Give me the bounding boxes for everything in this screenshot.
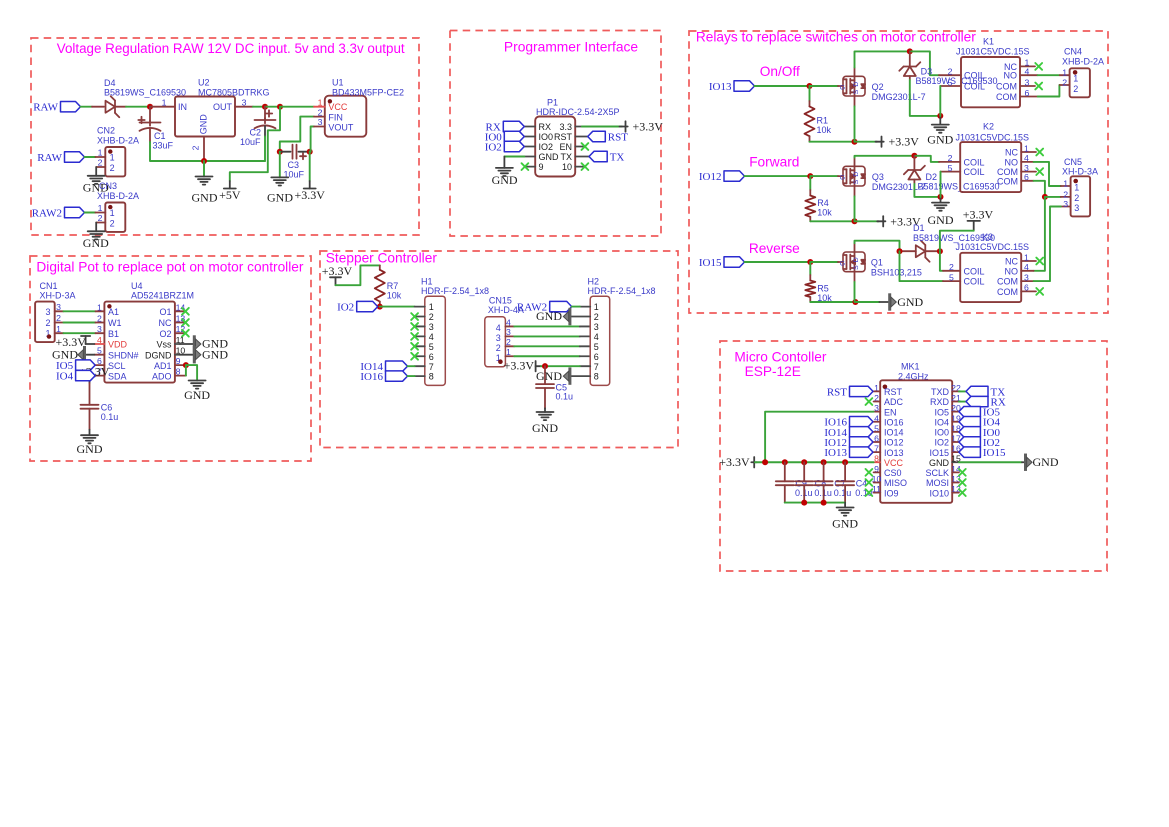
power +5V — [219, 181, 241, 202]
svg-text:4: 4 — [1024, 262, 1029, 272]
power GND — [194, 335, 201, 352]
resistor R7 top pin — [379, 265, 381, 269]
svg-text:9: 9 — [539, 162, 544, 172]
svg-text:SCL: SCL — [108, 361, 126, 371]
svg-text:RX: RX — [539, 122, 552, 132]
svg-text:NC: NC — [1005, 148, 1018, 158]
wire — [265, 106, 280, 108]
wire — [280, 151, 291, 153]
P1 right pin 10 — [575, 166, 585, 168]
svg-text:6: 6 — [1024, 88, 1029, 98]
svg-text:IO15: IO15 — [699, 257, 722, 269]
svg-text:B5819WS_C169530: B5819WS_C169530 — [104, 87, 186, 97]
wire — [854, 106, 856, 141]
wire — [810, 261, 838, 263]
svg-text:P1: P1 — [547, 97, 558, 107]
svg-text:IO15: IO15 — [929, 448, 949, 458]
diode D1 anode pin — [900, 250, 916, 252]
wire — [514, 335, 580, 337]
svg-text:10: 10 — [562, 162, 572, 172]
wire — [855, 141, 878, 143]
no-connect — [1035, 83, 1042, 90]
svg-text:On/Off: On/Off — [760, 64, 800, 79]
diode D2 — [904, 166, 925, 180]
wire — [253, 106, 265, 108]
CN5 pin 2 — [1061, 196, 1071, 198]
svg-text:GND: GND — [536, 309, 562, 323]
svg-text:NO: NO — [1004, 71, 1018, 81]
svg-text:5: 5 — [97, 346, 102, 356]
svg-text:3: 3 — [429, 322, 434, 332]
svg-text:RAW: RAW — [37, 152, 62, 164]
svg-text:IN: IN — [178, 102, 187, 112]
svg-text:+3.3V: +3.3V — [294, 188, 325, 202]
P1 right pin EN — [575, 146, 585, 148]
capacitor C6 bottom pin — [89, 409, 91, 430]
wire — [879, 301, 888, 303]
ground — [271, 177, 288, 185]
digital pot U4 — [104, 302, 174, 383]
svg-text:1: 1 — [1073, 74, 1078, 84]
CN15 pin 3 — [505, 335, 514, 337]
capacitor C2 pin — [264, 107, 266, 119]
transistor Q1 gate pin — [838, 261, 843, 263]
svg-text:1: 1 — [1062, 68, 1067, 78]
svg-text:5: 5 — [948, 77, 953, 87]
junction — [821, 500, 827, 506]
svg-text:2: 2 — [110, 219, 115, 229]
svg-text:3: 3 — [46, 307, 51, 317]
svg-text:XHB-D-2A: XHB-D-2A — [1062, 56, 1104, 66]
MK1 right pin 22 — [952, 390, 959, 392]
wire — [1038, 85, 1060, 97]
svg-text:TXD: TXD — [931, 387, 950, 397]
svg-text:IO5: IO5 — [934, 407, 949, 417]
diode D2 cathode pin — [913, 156, 915, 170]
svg-text:2: 2 — [318, 107, 323, 117]
P1 left pin 5 (NC) — [525, 166, 535, 168]
svg-text:GND: GND — [532, 421, 558, 435]
no-connect — [411, 343, 418, 350]
junction — [201, 158, 207, 164]
no-connect — [411, 353, 418, 360]
U1 pin1 dot — [328, 99, 332, 103]
U4 pin1 dot — [107, 304, 111, 308]
U4 pin 6 (SCL) — [95, 364, 104, 366]
svg-text:2: 2 — [97, 314, 102, 324]
svg-text:XHB-D-2A: XHB-D-2A — [97, 135, 139, 145]
junction — [852, 139, 858, 145]
svg-text:1: 1 — [318, 97, 323, 107]
MK1 right pin 20 — [952, 411, 959, 413]
svg-text:D: D — [853, 257, 860, 262]
capacitor C6 top pin — [89, 383, 91, 405]
svg-text:1: 1 — [97, 302, 102, 312]
svg-text:1: 1 — [429, 302, 434, 312]
capacitor C2 — [255, 110, 276, 128]
wire — [855, 51, 910, 67]
svg-text:COM: COM — [996, 92, 1017, 102]
U4 pin 13 (NC) — [175, 322, 184, 324]
svg-text:IO13: IO13 — [824, 447, 847, 459]
ground — [837, 508, 854, 516]
MK1 left pin 7 — [874, 451, 881, 453]
svg-text:2: 2 — [46, 318, 51, 328]
wire — [810, 301, 855, 303]
junction — [377, 304, 383, 310]
wire — [1038, 74, 1060, 76]
svg-text:U2: U2 — [198, 78, 210, 88]
wire — [380, 306, 415, 308]
no-connect — [1036, 258, 1043, 265]
H2 pin 5 — [580, 345, 590, 347]
wire — [64, 332, 96, 334]
junction — [807, 173, 813, 179]
svg-text:D4: D4 — [104, 78, 116, 88]
label RST — [588, 131, 629, 143]
wire — [572, 306, 580, 308]
svg-text:CN15: CN15 — [489, 296, 512, 306]
no-connect — [411, 323, 418, 330]
diode D1 — [916, 241, 930, 262]
wire RX — [959, 401, 966, 403]
K1 pin 4 (NO) — [1020, 74, 1038, 76]
power +3.3V — [294, 181, 325, 202]
svg-text:J1031C5VDC.15S: J1031C5VDC.15S — [956, 242, 1030, 252]
K2 pin 5 — [941, 171, 961, 173]
label IO4 — [959, 417, 1001, 429]
svg-text:6: 6 — [594, 352, 599, 362]
MK1 left pin 10 — [874, 481, 881, 483]
wire — [785, 502, 845, 504]
K2 pin 4 (NO) — [1021, 161, 1033, 163]
ground — [88, 176, 105, 184]
wire — [854, 196, 856, 221]
svg-text:RST: RST — [608, 131, 628, 143]
resistor R7 bottom pin — [379, 302, 381, 307]
resistor R5 bottom pin — [809, 297, 811, 302]
H2 pin 7 — [580, 365, 590, 367]
K1 pin 1 (NC) — [1020, 65, 1035, 67]
header H2 — [590, 296, 610, 385]
resistor R1 bottom pin — [809, 136, 811, 142]
CN5 pin 3 — [1061, 206, 1071, 208]
U4 pin 2 — [96, 322, 105, 324]
U1 pin 3 — [314, 126, 325, 128]
svg-text:O2: O2 — [159, 329, 171, 339]
CN15 pin 4 — [505, 325, 514, 327]
svg-text:4: 4 — [429, 332, 434, 342]
svg-text:IO4: IO4 — [56, 371, 74, 383]
svg-text:D2: D2 — [926, 172, 938, 182]
svg-text:4: 4 — [1024, 153, 1029, 163]
wire — [336, 265, 380, 285]
power +3.3V — [620, 120, 664, 134]
connector CN15 — [485, 317, 506, 367]
capacitor C9 top pin — [784, 462, 786, 481]
label RX — [966, 396, 1006, 408]
svg-text:CN2: CN2 — [97, 126, 115, 136]
CN4 pin1 dot — [1073, 70, 1078, 75]
svg-text:HDR-IDC-2.54-2X5P: HDR-IDC-2.54-2X5P — [536, 107, 620, 117]
svg-text:GND: GND — [927, 133, 953, 147]
svg-text:7: 7 — [594, 362, 599, 372]
svg-text:IO12: IO12 — [884, 438, 904, 448]
capacitor C3 — [293, 145, 307, 160]
wire — [855, 156, 915, 158]
wire — [544, 408, 546, 412]
K2 pin 1 (NC) — [1021, 151, 1036, 153]
no-connect MISO — [866, 479, 873, 486]
svg-text:GND: GND — [492, 173, 518, 187]
svg-text:10uF: 10uF — [240, 137, 261, 147]
capacitor C1 lower pin — [149, 129, 151, 143]
ground — [88, 231, 105, 239]
CN15 pin1 dot — [498, 359, 503, 364]
wire — [855, 220, 879, 222]
CN5 pin1 dot — [1073, 179, 1078, 184]
junction — [852, 299, 858, 305]
CN1 pin 2 — [55, 322, 64, 324]
wire — [264, 137, 266, 162]
H1 pin 3 — [415, 325, 425, 327]
regulator U2 — [175, 97, 235, 137]
capacitor C1 pin — [149, 107, 151, 121]
capacitor C4 — [836, 481, 854, 485]
power +3.3V — [876, 135, 920, 149]
svg-text:3: 3 — [56, 302, 61, 312]
power GND — [563, 367, 570, 384]
svg-text:XHB-D-2A: XHB-D-2A — [97, 191, 139, 201]
junction — [801, 500, 807, 506]
svg-text:IO14: IO14 — [884, 428, 904, 438]
svg-text:Relays to replace switches on: Relays to replace switches on motor cont… — [696, 29, 976, 44]
svg-text:COM: COM — [997, 277, 1018, 287]
svg-text:FIN: FIN — [328, 112, 343, 122]
svg-text:R7: R7 — [387, 281, 399, 291]
connector CN4 — [1070, 68, 1090, 97]
junction — [897, 248, 903, 254]
svg-text:6: 6 — [1024, 172, 1029, 182]
svg-text:GND: GND — [199, 114, 209, 135]
no-connect MOSI — [959, 479, 966, 486]
resistor R4 — [805, 196, 815, 217]
junction — [801, 459, 807, 465]
svg-text:R5: R5 — [817, 283, 829, 293]
svg-text:Q2: Q2 — [872, 82, 884, 92]
wire — [299, 151, 310, 153]
K2 pin 6 (COM) — [1021, 180, 1033, 182]
H1 pin 6 — [415, 355, 425, 357]
svg-text:Vss: Vss — [156, 340, 172, 350]
label IO13 — [824, 447, 873, 459]
CN15 pin 2 — [505, 345, 514, 347]
svg-text:ADC: ADC — [884, 397, 904, 407]
ground — [189, 381, 206, 389]
U4 pin 14 (O1) — [175, 310, 184, 312]
svg-text:2: 2 — [948, 67, 953, 77]
capacitor C8 — [795, 481, 813, 485]
MK1 pin1 dot — [883, 385, 888, 390]
connector CN2 — [105, 147, 125, 176]
svg-text:NC: NC — [159, 318, 172, 328]
wire TX — [959, 390, 966, 392]
resistor R1 — [805, 106, 815, 136]
junction — [907, 48, 913, 54]
label RX — [486, 121, 525, 133]
svg-text:5: 5 — [594, 342, 599, 352]
svg-text:RAW: RAW — [33, 102, 58, 114]
wire — [203, 161, 205, 177]
svg-text:GND: GND — [929, 458, 950, 468]
ground — [496, 168, 513, 176]
svg-text:K2: K2 — [983, 122, 994, 132]
K3 pin 2 — [943, 270, 960, 272]
svg-text:8: 8 — [594, 372, 599, 382]
wire — [408, 365, 415, 367]
svg-text:2: 2 — [110, 163, 115, 173]
svg-text:MK1: MK1 — [901, 362, 920, 372]
wire — [86, 343, 95, 345]
svg-text:HDR-F-2.54_1x8: HDR-F-2.54_1x8 — [421, 286, 489, 296]
wire — [1022, 461, 1024, 463]
MK1 right pin 19 — [952, 421, 959, 423]
junction — [147, 104, 153, 110]
K3 pin 6 (COM) — [1021, 290, 1036, 292]
label IO0 — [959, 427, 1001, 439]
junction — [911, 153, 917, 159]
CN15 pin 1 — [505, 355, 514, 357]
K1 pin 5 — [940, 85, 961, 87]
svg-text:2: 2 — [949, 262, 954, 272]
label IO0 — [485, 131, 525, 143]
svg-text:BD433M5FP-CE2: BD433M5FP-CE2 — [332, 87, 404, 97]
svg-text:5: 5 — [948, 163, 953, 173]
label RST — [827, 386, 873, 398]
svg-text:RST: RST — [554, 132, 573, 142]
svg-text:ESP-12E: ESP-12E — [745, 364, 801, 379]
H2 pin 6 — [580, 355, 590, 357]
svg-text:Forward: Forward — [749, 155, 799, 170]
power GND — [1026, 454, 1033, 471]
svg-text:MOSI: MOSI — [926, 478, 949, 488]
wire — [280, 117, 314, 152]
svg-text:B1: B1 — [108, 329, 119, 339]
capacitor C8 top pin — [803, 462, 805, 481]
no-connect — [582, 143, 589, 150]
svg-text:CN1: CN1 — [40, 281, 58, 291]
wire — [1034, 197, 1045, 271]
CN3 pin1 dot — [108, 205, 112, 209]
svg-text:VCC: VCC — [328, 102, 348, 112]
svg-text:J1031C5VDC.15S: J1031C5VDC.15S — [956, 47, 1030, 57]
no-connect — [582, 163, 589, 170]
K1 pin 3 (COM) — [1020, 85, 1035, 87]
label IO14 — [824, 427, 873, 439]
connector CN1 — [35, 302, 55, 343]
svg-text:2: 2 — [1073, 84, 1078, 94]
svg-text:6: 6 — [429, 352, 434, 362]
power +3.3V — [322, 264, 353, 285]
MK1 right pin 13 — [952, 481, 959, 483]
resistor R5 — [805, 281, 815, 298]
transistor Q3 gate pin — [838, 175, 843, 177]
diode D4 — [106, 96, 120, 117]
CN4 pin 2 — [1060, 84, 1070, 86]
svg-text:4: 4 — [594, 332, 599, 342]
wire — [910, 80, 941, 116]
MK1 right pin 18 — [952, 431, 959, 433]
svg-text:S: S — [853, 179, 860, 184]
no-connect — [1035, 63, 1042, 70]
wire — [745, 261, 811, 263]
MK1 left pin 8 — [874, 461, 881, 463]
wire — [765, 412, 874, 463]
wire — [745, 175, 811, 177]
power GND — [563, 308, 570, 325]
svg-text:Q3: Q3 — [872, 172, 884, 182]
svg-text:1: 1 — [1024, 252, 1029, 262]
label IO14 — [360, 361, 407, 373]
svg-text:CN5: CN5 — [1064, 157, 1082, 167]
label IO12 — [824, 437, 873, 449]
capacitor C5 — [536, 384, 554, 388]
svg-text:IO4: IO4 — [934, 417, 949, 427]
svg-text:SCLK: SCLK — [925, 468, 949, 478]
svg-text:EN: EN — [884, 407, 897, 417]
svg-text:3: 3 — [1074, 203, 1079, 213]
label IO2 — [959, 437, 1000, 449]
wire — [940, 172, 942, 197]
ground — [932, 125, 949, 133]
svg-text:IO2: IO2 — [337, 302, 354, 314]
svg-text:EN: EN — [559, 142, 572, 152]
MK1 right pin 16 — [952, 451, 959, 453]
svg-text:RAW2: RAW2 — [32, 207, 62, 219]
junction — [937, 248, 943, 254]
svg-text:3.3: 3.3 — [559, 122, 572, 132]
wire — [309, 152, 311, 181]
svg-text:R1: R1 — [817, 116, 829, 126]
svg-text:5: 5 — [949, 272, 954, 282]
svg-text:W1: W1 — [108, 318, 122, 328]
H2 pin 1 — [580, 306, 590, 308]
no-connect CS0 — [866, 469, 873, 476]
CN2 pin 1 — [95, 156, 105, 158]
junction — [183, 362, 189, 368]
diode D1 cathode pin — [925, 250, 940, 252]
svg-text:1: 1 — [1024, 143, 1029, 153]
MK1 right pin 17 — [952, 441, 959, 443]
wire — [810, 175, 838, 177]
H2 pin 3 — [580, 325, 590, 327]
svg-text:0.1u: 0.1u — [834, 488, 852, 498]
svg-text:+3.3V: +3.3V — [504, 359, 535, 373]
wire — [180, 354, 193, 356]
svg-text:COM: COM — [997, 287, 1018, 297]
wire — [810, 85, 839, 87]
wire — [64, 310, 96, 312]
svg-text:Q1: Q1 — [871, 258, 883, 268]
power +3.3V — [504, 359, 541, 373]
CN1 pin1 dot — [47, 334, 51, 338]
P1 right pin 3.3V — [575, 126, 585, 128]
section box: Voltage Regulation — [31, 38, 419, 235]
ground — [932, 203, 949, 211]
svg-text:10k: 10k — [817, 125, 832, 135]
wire — [408, 375, 415, 377]
wire — [150, 142, 265, 161]
